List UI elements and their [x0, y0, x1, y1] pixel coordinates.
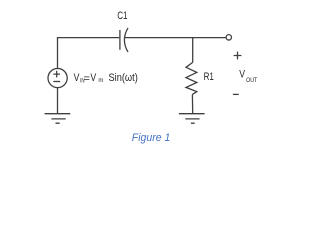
output terminal open circle [226, 35, 231, 40]
resistor R1 zigzag body [186, 62, 197, 94]
svg-text:V: V [90, 72, 96, 84]
svg-text:=: = [84, 73, 90, 85]
voltage source V1 circle [48, 68, 67, 87]
capacitor C1 right curved plate [124, 28, 128, 52]
wire: top rail left segment to C1 [57, 37, 119, 39]
svg-text:Sin(ωt): Sin(ωt) [109, 72, 138, 84]
voltage source plus sign [53, 71, 60, 78]
wire: source bottom lead to ground [57, 88, 59, 114]
svg-text:V: V [74, 72, 80, 84]
ground symbol (source) [45, 114, 71, 124]
wire: R1 top lead from node on top rail [192, 38, 194, 63]
svg-text:V: V [239, 68, 245, 80]
output minus sign [233, 93, 239, 95]
output plus sign [234, 52, 242, 60]
svg-text:Figure 1: Figure 1 [132, 132, 171, 144]
wire: top rail right segment from C1 to output terminal [125, 37, 226, 39]
wire: left vertical from top rail to source [57, 38, 59, 68]
svg-text:OUT: OUT [246, 78, 257, 84]
svg-text:C1: C1 [117, 10, 127, 22]
svg-text:R1: R1 [204, 71, 214, 83]
ground symbol (R1) [179, 114, 205, 124]
capacitor C1 left plate [119, 30, 121, 50]
voltage source minus sign [53, 81, 60, 83]
svg-text:m: m [98, 78, 103, 84]
wire: R1 bottom lead to ground [191, 95, 193, 114]
